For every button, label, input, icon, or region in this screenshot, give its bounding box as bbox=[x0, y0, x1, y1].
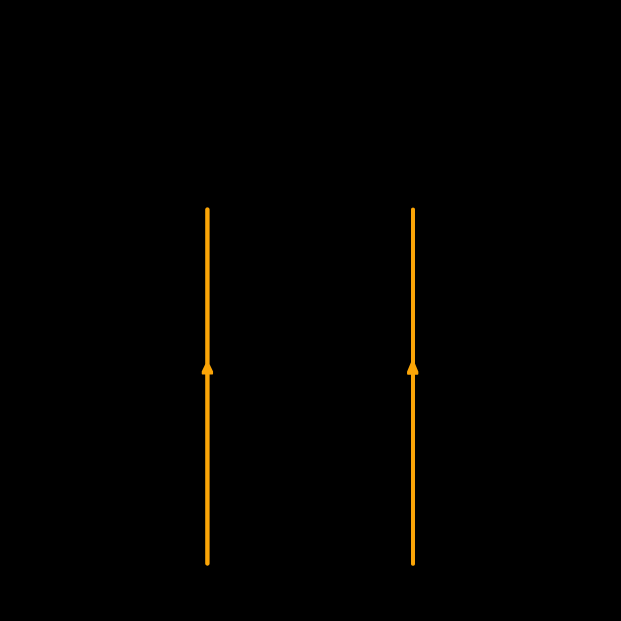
wire 1 (left current-carrying conductor) bbox=[205, 210, 209, 564]
arrowhead I2 (current direction up, right wire) bbox=[408, 360, 418, 374]
arrowhead I1 (current direction up, left wire) bbox=[203, 362, 213, 374]
wire 2 (right current-carrying conductor) bbox=[411, 210, 415, 564]
